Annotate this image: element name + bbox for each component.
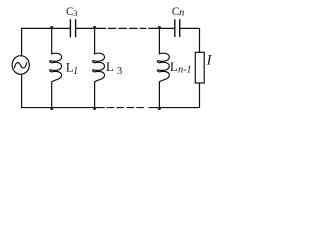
svg-text:C3: C3 — [66, 6, 78, 18]
inductor L1 lower wire — [51, 82, 53, 108]
wire top dashed segment — [108, 27, 146, 29]
inductor L1 — [50, 53, 62, 82]
AC source G1 — [12, 56, 29, 75]
svg-text:Cn: Cn — [172, 6, 184, 19]
svg-text:I: I — [206, 52, 213, 68]
capacitor C3 — [70, 20, 75, 37]
junction dot top L1 — [50, 26, 53, 29]
svg-text:L3: L3 — [106, 59, 122, 77]
inductor Ln-1 branch wire — [158, 28, 160, 54]
svg-text:Ln-1: Ln-1 — [170, 59, 192, 75]
wire bottom dashed segment — [107, 107, 146, 109]
wire Cn to right corner, down to load — [180, 28, 200, 52]
junction dot top L3 — [93, 26, 96, 29]
junction dot bottom L1 — [50, 107, 53, 110]
inductor L3 — [93, 53, 105, 82]
junction dot top Ln-1 — [158, 26, 161, 29]
junction dot bottom Ln-1 — [158, 107, 161, 110]
inductor Ln-1 lower wire — [158, 82, 160, 108]
inductor Ln-1 — [157, 53, 169, 82]
resistor load rectangle — [195, 52, 204, 83]
wire bottom-left solid — [22, 74, 105, 107]
wire load bottom to bottom-right corner — [149, 83, 200, 108]
inductor L3 lower wire — [94, 82, 96, 108]
svg-text:L1: L1 — [66, 59, 78, 77]
inductor L3 branch wire — [94, 28, 96, 54]
capacitor Cn — [175, 20, 180, 37]
wire C3 to dashed — [76, 27, 106, 29]
wire top-left segment — [22, 28, 70, 56]
junction dot bottom L3 — [93, 107, 96, 110]
inductor L1 branch wire — [51, 28, 53, 54]
wire dashed to Cn — [149, 27, 175, 29]
